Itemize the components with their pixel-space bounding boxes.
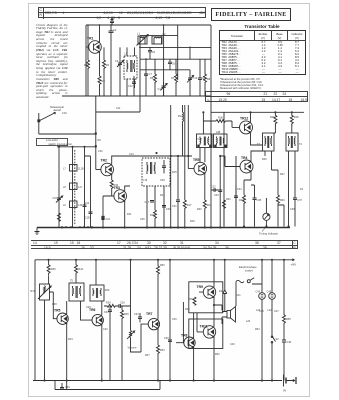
svg-text:R42: R42	[78, 268, 83, 271]
resistor R8	[204, 59, 211, 96]
wire vert x284	[278, 205, 284, 227]
resistor R10	[110, 180, 119, 189]
resistor R26	[270, 112, 277, 125]
wire TR5 emitter	[55, 323, 67, 389]
resistor R28	[290, 112, 299, 125]
resistor R3	[98, 76, 105, 96]
svg-text:R9: R9	[98, 139, 102, 142]
capacitor C30b	[104, 306, 112, 381]
output pair box TR9	[189, 282, 223, 313]
wire TR4 emitter down	[250, 172, 252, 181]
svg-text:L20: L20	[246, 320, 251, 323]
coil pack outer column	[85, 156, 91, 228]
capacitor C27	[145, 201, 155, 205]
svg-text:R25: R25	[262, 158, 267, 161]
capacitor C1B	[85, 212, 93, 220]
svg-text:S2: S2	[276, 338, 280, 341]
svg-text:C35: C35	[257, 199, 262, 202]
wire lower supply rail	[35, 259, 291, 261]
resistor R7	[171, 74, 178, 84]
wire bias sub-line	[55, 381, 160, 390]
capacitor C16	[83, 202, 90, 206]
resistor R22 sym	[223, 200, 226, 227]
svg-text:C40: C40	[230, 343, 235, 346]
wire TR8 collector	[193, 313, 195, 338]
wire R5	[154, 59, 156, 96]
resistor R42	[75, 260, 84, 283]
svg-text:C28: C28	[160, 179, 165, 182]
junction dots pack	[58, 133, 97, 148]
transistor TR7	[146, 312, 160, 330]
junction dots bottom bus	[43, 379, 273, 381]
svg-text:R30: R30	[280, 199, 285, 202]
low ac/int switch label box	[36, 138, 68, 146]
coil pack main column	[72, 147, 74, 228]
coil core box L9	[63, 201, 83, 208]
wire TR4 base long	[220, 156, 240, 167]
wire R26 down	[274, 125, 275, 133]
wire TR9 wiring	[199, 260, 214, 305]
wire TR7 emitter	[157, 329, 159, 345]
wire T2 feed from rail	[202, 112, 204, 134]
svg-text:R28: R28	[294, 116, 299, 119]
wire vert x170 lower	[169, 260, 171, 381]
svg-text:C25: C25	[140, 218, 145, 221]
svg-text:R1: R1	[84, 63, 88, 67]
IF transformer T2b	[214, 131, 228, 148]
wire TR2 feed vertical	[95, 96, 97, 170]
junction dot x170	[170, 155, 172, 157]
svg-text:R49: R49	[185, 308, 190, 311]
wire C17a down	[163, 91, 165, 96]
capacitor C22	[101, 196, 110, 228]
wire oscillator rail 4	[140, 69, 190, 71]
main earth bus upper schematic	[37, 227, 290, 229]
svg-text:R16: R16	[150, 214, 155, 217]
battery B1	[283, 375, 296, 393]
svg-text:R52: R52	[215, 353, 220, 356]
junction dots on bus	[61, 226, 221, 228]
svg-text:C12: C12	[128, 85, 133, 88]
wire lower left vertical	[34, 260, 36, 381]
svg-text:R53: R53	[160, 349, 165, 352]
svg-text:C7: C7	[149, 72, 153, 76]
dashed IF transformer L5/L6	[124, 52, 137, 80]
transistor TR2	[101, 159, 114, 176]
wire socket to speaker line	[235, 282, 238, 307]
capacitor C37	[293, 165, 302, 227]
resistor R1	[84, 60, 90, 70]
wire pot to TR5 base	[50, 292, 57, 319]
resistor R36	[47, 260, 56, 276]
capacitor C12	[128, 76, 136, 96]
wire oscillator rail 1	[140, 35, 178, 37]
wire C10	[189, 47, 191, 96]
svg-text:R5: R5	[150, 76, 154, 80]
svg-text:C24: C24	[106, 218, 111, 221]
wire coupling row	[104, 305, 131, 307]
coil pack gang line dashed	[74, 150, 76, 225]
svg-text:C47: C47	[274, 310, 279, 313]
wire T5 secondary to TR6 base	[81, 301, 92, 320]
telescopic aerial label	[42, 106, 72, 113]
wire TR12 emitter	[251, 133, 263, 146]
IF transformer T4	[286, 133, 303, 151]
telescopic aerial mast	[38, 113, 56, 135]
wire T3 bottom drops	[265, 151, 272, 170]
capacitor C6	[168, 59, 176, 70]
wire TR8 emitter	[193, 347, 195, 380]
wire vert x236	[235, 156, 237, 227]
resistor R23	[239, 180, 251, 227]
svg-text:C37: C37	[198, 138, 203, 141]
wire left vertical of front end	[85, 25, 87, 96]
output pair box TR11	[189, 319, 223, 349]
svg-text:C30: C30	[104, 311, 109, 314]
svg-text:L21: L21	[268, 309, 273, 312]
coil pack right column	[84, 147, 86, 228]
resistor R58	[283, 260, 292, 340]
middle ruler C/R end labels	[292, 240, 298, 249]
coil L2	[152, 32, 166, 44]
wire front-end ground rail	[62, 95, 211, 97]
svg-text:T5: T5	[70, 280, 74, 283]
resistor R17	[183, 140, 192, 228]
svg-text:R54: R54	[255, 328, 260, 331]
svg-text:R17: R17	[187, 204, 192, 207]
svg-text:D2: D2	[219, 290, 223, 293]
resistor R24 label	[106, 302, 115, 308]
wire vert x188.3	[187, 105, 189, 156]
earphone socket label	[239, 265, 257, 272]
wire R1	[87, 25, 89, 96]
wire L5 connections	[127, 47, 135, 96]
electrolytic C45	[267, 260, 276, 330]
capacitor C49	[60, 383, 70, 389]
svg-text:T3: T3	[257, 143, 261, 146]
svg-text:R46: R46	[105, 289, 110, 292]
wire TR11 wiring	[197, 305, 214, 381]
wire vert x163	[163, 25, 165, 96]
junction dots lower rail	[48, 259, 286, 261]
wire TR2 base	[96, 169, 101, 171]
resistor R50	[157, 260, 166, 277]
svg-text:C30: C30	[166, 208, 171, 211]
wire C7 down	[145, 59, 147, 96]
left descriptive text column	[36, 24, 68, 100]
svg-text:C15: C15	[53, 197, 58, 200]
resistor R21	[203, 200, 212, 228]
svg-text:R45: R45	[124, 313, 129, 316]
svg-text:TR12: TR12	[240, 116, 248, 120]
svg-text:R44: R44	[68, 338, 73, 341]
wire TR1 emitter down	[99, 52, 101, 76]
wire TR3 emitter down	[124, 201, 126, 228]
svg-text:C41: C41	[236, 294, 241, 297]
capacitor C26	[115, 302, 125, 309]
transistor TR5	[193, 158, 207, 175]
svg-text:R22: R22	[226, 198, 231, 201]
transistor TR4	[240, 156, 253, 173]
svg-text:TR7: TR7	[146, 312, 153, 316]
resistor R30	[272, 170, 286, 227]
svg-text:TR9: TR9	[197, 285, 204, 289]
svg-text:L2B: L2B	[216, 131, 221, 134]
svg-text:C31: C31	[172, 205, 177, 208]
coil pack left column	[58, 147, 60, 228]
svg-text:R19: R19	[190, 220, 195, 223]
title box FIDELITY - FAIRLINE	[211, 8, 291, 21]
capacitor C34b	[234, 185, 238, 227]
capacitor C34	[134, 313, 142, 322]
wire oscillator rail 2	[140, 46, 211, 48]
wire C2 down	[110, 38, 112, 96]
junction dot TR9/TR11 emitters	[213, 304, 215, 306]
transistor TR5	[54, 309, 68, 325]
electrolytic C43	[256, 260, 266, 381]
svg-text:R8: R8	[207, 78, 211, 81]
svg-text:R24: R24	[106, 302, 111, 305]
volume potentiometer	[127, 330, 137, 350]
driver transformer T5	[69, 280, 84, 302]
wire pot bottom	[44, 300, 46, 381]
svg-text:R12: R12	[178, 115, 183, 118]
right component-location ruler	[205, 91, 308, 102]
svg-text:C11: C11	[116, 107, 121, 110]
svg-text:C39: C39	[290, 208, 295, 211]
svg-text:C1B: C1B	[85, 217, 90, 220]
wire discr box drops	[147, 186, 164, 228]
transistor TR1	[87, 37, 101, 54]
svg-text:Volume: Volume	[128, 346, 137, 350]
wire R7	[175, 59, 177, 96]
resistor R53	[157, 345, 166, 381]
resistor R6a	[58, 213, 61, 221]
potentiometer R37	[30, 284, 51, 300]
wire TR3 collector up	[125, 186, 130, 191]
svg-text:TR3: TR3	[114, 186, 121, 190]
wire x182 down	[182, 128, 184, 156]
svg-text:C34: C34	[237, 188, 242, 191]
capacitor C9	[198, 74, 206, 83]
coil core box L7	[63, 165, 84, 172]
wire vert x224 lower	[223, 112, 225, 226]
wire TR2 emitter down	[111, 175, 113, 181]
junction dot x95.8	[95, 132, 97, 147]
svg-text:C38: C38	[164, 337, 169, 340]
transistor TR12	[240, 116, 253, 134]
svg-text:C6: C6	[172, 63, 176, 66]
svg-text:C29: C29	[86, 306, 91, 309]
resistor R18	[203, 117, 232, 123]
capacitor C29a	[162, 206, 166, 208]
svg-text:R7: R7	[171, 76, 175, 80]
variable capacitor C17a	[158, 82, 168, 91]
wire long vert x170	[170, 105, 172, 228]
wire TR12 base	[232, 121, 240, 127]
wire TR12 collector	[250, 112, 252, 122]
wire TR7 collector	[157, 277, 159, 320]
wire R36 to pot	[48, 276, 50, 284]
svg-text:R14: R14	[160, 194, 165, 197]
resistor R56	[190, 297, 197, 305]
wire R28 into T4	[291, 125, 293, 133]
wire bottom bus	[33, 380, 282, 382]
svg-text:R50: R50	[160, 264, 165, 267]
footnotes under table	[220, 78, 300, 90]
junction dots front end	[99, 24, 191, 71]
wire y112 link	[96, 96, 140, 112]
capacitor C38	[164, 337, 172, 342]
svg-text:TR5: TR5	[193, 158, 200, 162]
svg-text:C32: C32	[103, 328, 108, 331]
middle component-location ruler	[31, 240, 297, 250]
wire +9V arrow	[291, 259, 295, 261]
earphone socket contacts	[236, 278, 262, 284]
svg-text:R11: R11	[127, 213, 132, 216]
svg-text:C19: C19	[62, 112, 67, 115]
svg-text:L7: L7	[63, 168, 66, 171]
wire vert x177	[177, 25, 179, 80]
wire T6 top	[96, 260, 102, 316]
svg-text:D1: D1	[300, 188, 304, 191]
svg-text:C13: C13	[129, 153, 134, 156]
transistor TR11	[200, 324, 216, 338]
wire T4 bottom drops	[289, 151, 296, 227]
transistor TR9	[197, 285, 216, 298]
tuning indicator meter	[259, 198, 278, 236]
svg-text:C34: C34	[134, 313, 139, 316]
svg-text:C32: C32	[211, 186, 216, 189]
wire right section supply rail	[211, 111, 304, 113]
svg-text:+9V: +9V	[291, 262, 298, 266]
svg-text:TR5: TR5	[54, 309, 61, 313]
wire TR2 collector up and IF takeoff	[112, 156, 192, 165]
svg-text:L1: L1	[137, 32, 140, 36]
wire oscillator rail 3	[140, 58, 211, 60]
ground symbol at bus left	[35, 228, 40, 235]
capacitor C31	[172, 156, 180, 228]
svg-text:C27: C27	[145, 201, 150, 204]
wire to TR3 base	[103, 189, 114, 196]
wire volume to TR7	[131, 324, 149, 352]
diode D2	[219, 260, 227, 300]
svg-text:2L1B: 2L1B	[78, 168, 84, 171]
discriminator dashed box	[142, 158, 170, 186]
svg-text:R56: R56	[190, 298, 195, 301]
wire TR1 collector to rail	[99, 25, 101, 42]
wire vert x140	[139, 36, 141, 96]
svg-text:C5: C5	[152, 51, 156, 54]
svg-text:R58: R58	[286, 318, 291, 321]
svg-text:T4: T4	[299, 143, 303, 146]
coil L1	[137, 32, 149, 46]
trimmer C10	[187, 74, 198, 83]
output transformer T6	[90, 285, 110, 301]
svg-text:L8: L8	[63, 186, 66, 189]
svg-text:R27: R27	[280, 173, 285, 176]
transistor TR8	[181, 334, 195, 349]
wire x183	[176, 302, 184, 343]
svg-text:L15: L15	[143, 179, 148, 182]
svg-text:R37: R37	[30, 290, 35, 293]
svg-text:C20: C20	[98, 150, 103, 153]
transistor TR6	[89, 308, 103, 326]
svg-text:C49: C49	[65, 386, 70, 389]
resistor R12 coil squiggle	[178, 105, 184, 129]
resistor R45	[121, 306, 130, 381]
capacitor C7	[144, 70, 152, 80]
wire speaker feed	[214, 305, 222, 311]
svg-text:R21: R21	[207, 204, 212, 207]
wire vert x220	[219, 156, 221, 228]
wire TR5 base	[188, 156, 194, 169]
capacitor C33	[214, 190, 222, 197]
svg-text:C26: C26	[120, 302, 125, 305]
svg-text:R1B: R1B	[218, 117, 223, 120]
transistor table	[219, 30, 306, 76]
svg-text:socket: socket	[245, 268, 253, 272]
svg-text:L9: L9	[63, 204, 66, 207]
svg-text:C45: C45	[259, 310, 264, 313]
IF transformer T2a	[197, 134, 213, 148]
svg-text:C16: C16	[85, 202, 90, 205]
svg-text:TR11: TR11	[200, 324, 208, 328]
svg-text:Tuning Indicator: Tuning Indicator	[259, 232, 278, 236]
svg-text:Internal aerial: Internal aerial	[57, 143, 72, 146]
svg-text:L17: L17	[78, 186, 83, 189]
IF transformer T3	[257, 133, 274, 151]
trimmer C4	[115, 59, 124, 68]
aerial trimmer C1	[110, 17, 114, 25]
transistor table heading	[218, 24, 306, 29]
svg-text:R15: R15	[172, 171, 177, 174]
resistor R16	[150, 210, 157, 228]
loudspeaker	[222, 300, 236, 324]
wire TR1 base	[86, 46, 89, 48]
wire C4 down	[119, 47, 121, 96]
wire TR6 emitter	[101, 325, 103, 381]
svg-text:R26: R26	[270, 116, 275, 119]
capacitor C32a	[211, 186, 219, 192]
switch S2	[271, 330, 279, 381]
resistor R5	[150, 74, 157, 84]
svg-text:R20: R20	[197, 208, 202, 211]
svg-text:C2: C2	[113, 28, 117, 32]
top component-location ruler table	[38, 7, 206, 18]
capacitor C48	[282, 340, 292, 381]
wire TR5 emitter down	[204, 174, 206, 201]
svg-text:L19: L19	[78, 204, 83, 207]
svg-text:TR4: TR4	[241, 156, 248, 160]
resistor R2	[103, 60, 110, 70]
svg-text:C36: C36	[172, 318, 177, 321]
wire link line	[57, 146, 96, 148]
svg-text:TR8: TR8	[181, 334, 188, 338]
svg-text:C43: C43	[256, 291, 261, 294]
capacitor C5	[148, 47, 156, 59]
svg-text:9V: 9V	[283, 389, 286, 393]
wire TR5 collector	[66, 301, 68, 314]
wire right vertical of tuner section	[210, 25, 212, 228]
wire C9	[199, 59, 201, 96]
svg-text:C45: C45	[267, 291, 272, 294]
svg-text:C33: C33	[214, 194, 219, 197]
svg-text:R47: R47	[145, 354, 150, 357]
svg-text:TR2: TR2	[101, 159, 108, 163]
wire TR4 collector	[251, 151, 265, 162]
junction dots mid	[102, 152, 189, 218]
